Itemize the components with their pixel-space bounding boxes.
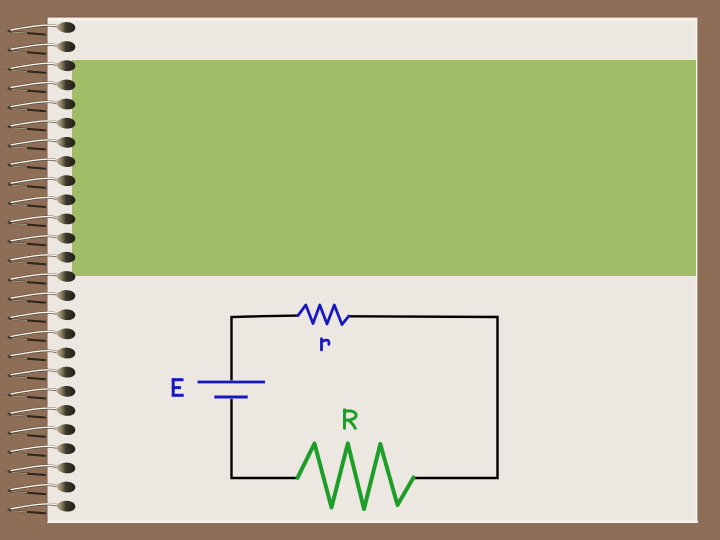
wire: left wire lower segment + bottom-left wire xyxy=(232,399,298,478)
page top highlight xyxy=(47,18,697,21)
spiral binding rings xyxy=(8,22,75,513)
battery E short plate xyxy=(214,396,247,399)
page right highlight edge xyxy=(696,18,698,523)
battery E long plate xyxy=(198,381,266,384)
page bottom highlight edge xyxy=(47,521,698,523)
page left edge shadow xyxy=(47,17,48,523)
wire: top-right wire + right wire + bottom-right wire xyxy=(349,316,498,478)
resistor r (internal resistance, blue zigzag) xyxy=(298,305,349,325)
page edge shadow line top xyxy=(47,17,698,18)
label r xyxy=(322,339,329,350)
green title banner xyxy=(72,60,696,276)
label E xyxy=(172,378,184,396)
wire: left wire upper segment + top-left wire xyxy=(232,316,298,381)
label R xyxy=(345,410,357,429)
resistor R (external resistance, green zigzag) xyxy=(298,444,414,510)
